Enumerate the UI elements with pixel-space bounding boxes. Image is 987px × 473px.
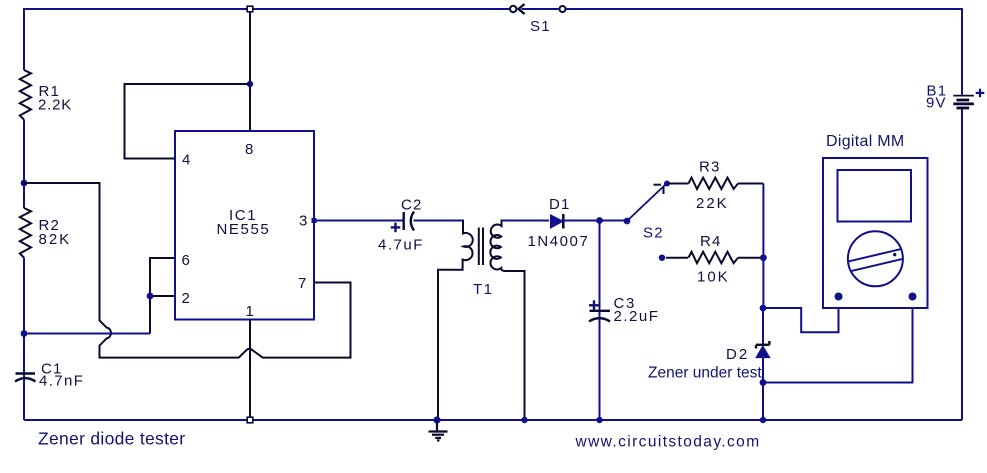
svg-text:Digital MM: Digital MM bbox=[826, 133, 905, 150]
wire C2 to transformer primary bbox=[414, 220, 464, 222]
node pin8 branch junction bbox=[247, 81, 253, 87]
node D2 bottom junction bbox=[760, 379, 767, 386]
wire left rail between R1 and R2 bbox=[23, 120, 25, 208]
resistor R2 bbox=[20, 208, 31, 258]
IC op-amp/timer U1 box IC1 NE555 bbox=[175, 131, 314, 320]
wire pin 1 to ground rail bbox=[249, 320, 251, 421]
wire S2 contact to R3 bbox=[667, 183, 689, 185]
wire R4 left bbox=[666, 257, 688, 259]
node R4 left open contact bbox=[659, 255, 665, 261]
node D2 top junction bbox=[760, 305, 767, 312]
svg-text:2: 2 bbox=[182, 290, 190, 307]
wire left rail lower bbox=[23, 258, 25, 420]
multimeter dial bbox=[848, 231, 903, 286]
switch S1 left contact bbox=[510, 6, 516, 12]
switch S1 arm with arrowhead bbox=[519, 4, 559, 14]
svg-text:S2: S2 bbox=[643, 225, 664, 242]
switch S1 right contact bbox=[560, 6, 566, 12]
wire transformer secondary to D1 bbox=[502, 220, 550, 222]
wire top rail right segment bbox=[566, 8, 962, 10]
node bottom transformer secondary junction bbox=[521, 417, 527, 423]
node junction R1-R2 bbox=[21, 180, 28, 187]
transformer T1 core bbox=[479, 228, 483, 266]
multimeter dial slot bbox=[849, 249, 903, 271]
wire D2 anode feed bbox=[762, 308, 764, 345]
svg-text:T1: T1 bbox=[473, 281, 493, 298]
svg-text:2.2uF: 2.2uF bbox=[614, 308, 660, 325]
zener diode D2 cathode bar bbox=[756, 341, 769, 349]
switch S2 upper contact node bbox=[664, 181, 670, 187]
wire R4 to vertical bbox=[738, 257, 763, 259]
multimeter body Digital MM bbox=[823, 158, 928, 308]
node bottom pin1 junction bbox=[247, 417, 253, 423]
svg-text:D1: D1 bbox=[549, 196, 571, 213]
svg-text:S1: S1 bbox=[530, 18, 551, 35]
wire pin 8 branch to pin 4 bbox=[125, 84, 251, 159]
svg-text:R4: R4 bbox=[700, 233, 722, 250]
transformer T1 secondary winding bbox=[490, 220, 524, 421]
wire pin 6 bbox=[150, 258, 175, 334]
svg-text:8: 8 bbox=[245, 141, 253, 158]
svg-text:NE555: NE555 bbox=[217, 221, 271, 238]
node bottom C3 junction bbox=[596, 417, 602, 423]
svg-text:4.7nF: 4.7nF bbox=[39, 372, 84, 389]
svg-text:82K: 82K bbox=[39, 231, 72, 248]
svg-text:10K: 10K bbox=[697, 269, 730, 286]
node bottom D2 junction bbox=[760, 417, 766, 423]
svg-text:7: 7 bbox=[298, 275, 306, 292]
battery B1 bbox=[953, 96, 974, 108]
svg-text:22K: 22K bbox=[696, 195, 729, 212]
wire top rail left segment bbox=[24, 8, 510, 10]
capacitor C1 bbox=[15, 374, 36, 382]
multimeter right probe terminal bbox=[909, 293, 917, 301]
ground symbol bbox=[429, 420, 448, 440]
wire pin 8 vertical to top rail bbox=[249, 9, 251, 131]
svg-text:Zener diode tester: Zener diode tester bbox=[38, 428, 185, 448]
label + of B1 bbox=[976, 89, 985, 98]
wire right rail upper bbox=[961, 8, 963, 95]
svg-text:9V: 9V bbox=[926, 95, 947, 112]
svg-text:6: 6 bbox=[182, 252, 190, 269]
svg-text:2.2K: 2.2K bbox=[38, 97, 72, 114]
node C3 junction bbox=[596, 217, 603, 224]
wire left probe loop bbox=[763, 297, 839, 333]
wire right rail lower bbox=[961, 109, 963, 420]
resistor R3 bbox=[689, 178, 739, 189]
zener diode D2 triangle bbox=[756, 346, 770, 358]
switch S2 pivot node bbox=[624, 218, 631, 225]
wire pin 3 to C2 bbox=[315, 220, 403, 222]
diode D1 1N4007 bbox=[551, 215, 564, 228]
svg-text:3: 3 bbox=[299, 213, 307, 230]
svg-text:C2: C2 bbox=[401, 196, 423, 213]
node bottom ground junction bbox=[433, 416, 440, 423]
node top rail pin8 junction bbox=[247, 6, 253, 12]
resistor R4 bbox=[689, 252, 739, 263]
svg-text:4.7uF: 4.7uF bbox=[378, 236, 424, 253]
wire R3 to vertical bbox=[738, 183, 763, 185]
switch S2 arrow barbs bbox=[654, 185, 664, 194]
wire bottom rail bbox=[24, 419, 962, 421]
svg-text:1N4007: 1N4007 bbox=[528, 233, 590, 250]
transformer T1 primary winding bbox=[438, 220, 473, 421]
node pin2/pin6 junction bbox=[147, 293, 154, 300]
capacitor C2 bbox=[404, 212, 414, 231]
wire pin 2 bbox=[150, 295, 175, 297]
svg-text:www.circuitstoday.com: www.circuitstoday.com bbox=[575, 434, 761, 451]
node pin3 connection square bbox=[312, 218, 317, 223]
resistor R1 bbox=[20, 70, 31, 120]
switch S2 arm bbox=[627, 185, 666, 222]
wire branch R1/R2 node to pin7 loop (with hop over pin2 wire) bbox=[24, 183, 351, 358]
multimeter dial marker dot bbox=[893, 253, 896, 256]
wire R3/R4 vertical bbox=[762, 184, 764, 309]
label + of C3 bbox=[589, 300, 599, 310]
multimeter left probe terminal bbox=[835, 293, 843, 301]
node junction left rail to pin2 wire bbox=[21, 330, 28, 337]
label + of C2 bbox=[391, 223, 401, 233]
wire C3 vertical bbox=[599, 221, 601, 421]
wire left rail upper bbox=[23, 8, 25, 70]
wire D2 to bottom junction bbox=[762, 358, 764, 420]
svg-text:1: 1 bbox=[246, 303, 254, 320]
capacitor C3 bbox=[589, 311, 610, 322]
svg-text:D2: D2 bbox=[726, 346, 749, 363]
svg-text:R3: R3 bbox=[699, 159, 721, 176]
svg-text:4: 4 bbox=[182, 152, 190, 169]
wire right probe loop bbox=[763, 297, 913, 383]
node R4 vertical junction bbox=[760, 254, 767, 261]
multimeter display bbox=[838, 170, 912, 222]
wire D1 to S2 pivot bbox=[562, 220, 628, 222]
wire left rail node to pin2/6 vertical bbox=[24, 333, 150, 335]
svg-text:Zener under test: Zener under test bbox=[648, 365, 762, 382]
